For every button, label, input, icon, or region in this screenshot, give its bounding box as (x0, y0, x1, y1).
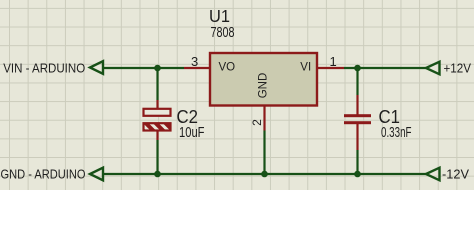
svg-text:-12V: -12V (442, 167, 470, 181)
svg-text:+12V: +12V (444, 61, 472, 75)
svg-text:GND: GND (257, 73, 269, 99)
svg-text:2: 2 (250, 119, 264, 126)
svg-text:VI: VI (300, 62, 311, 74)
svg-text:0.33nF: 0.33nF (381, 124, 412, 141)
svg-text:1: 1 (330, 54, 337, 69)
svg-text:10uF: 10uF (179, 124, 205, 141)
svg-text:VO: VO (219, 62, 236, 74)
svg-text:VIN - ARDUINO: VIN - ARDUINO (3, 61, 85, 75)
svg-text:7808: 7808 (211, 24, 235, 41)
svg-text:U1: U1 (209, 6, 230, 26)
svg-text:GND - ARDUINO: GND - ARDUINO (1, 167, 86, 181)
svg-text:3: 3 (191, 54, 198, 69)
